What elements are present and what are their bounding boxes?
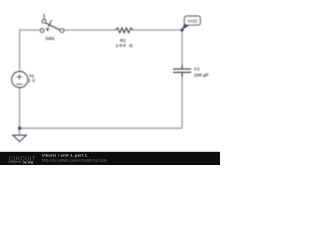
- svg-text:SW1: SW1: [45, 36, 55, 41]
- svg-text:▸LAB: ▸LAB: [23, 161, 34, 165]
- watermark logo lab line: [8, 161, 22, 163]
- svg-text:C1: C1: [194, 67, 200, 72]
- wire switch to resistor: [64, 29, 116, 31]
- node flag Vc(t) tail: [182, 23, 190, 30]
- wire right vertical below capacitor: [181, 73, 183, 128]
- switch SW1: [40, 20, 64, 33]
- node junction dot bottom-left: [18, 127, 21, 130]
- svg-text:R1: R1: [120, 38, 126, 43]
- voltage source V1: [12, 72, 28, 88]
- wire ground stub: [19, 128, 21, 135]
- wire bottom: [20, 127, 183, 129]
- svg-text:100 µF: 100 µF: [194, 72, 209, 78]
- ground: [13, 135, 26, 141]
- wire left vertical below V1: [19, 88, 21, 129]
- wire switch top stub: [43, 14, 45, 20]
- svg-text:1 V: 1 V: [28, 78, 35, 83]
- svg-text:Vc(t): Vc(t): [187, 19, 198, 24]
- svg-text:http://circuitlab.com/c/7p6dh7: http://circuitlab.com/c/7p6dh7uc7p3p: [42, 158, 107, 162]
- wire top-left segment and left vertical: [20, 30, 41, 71]
- wire resistor to top-right corner: [133, 30, 182, 69]
- capacitor C1: [173, 65, 191, 77]
- svg-text:100 Ω: 100 Ω: [116, 43, 134, 49]
- watermark bar: [0, 152, 220, 165]
- svg-text:ctkurtz / unit 1_part.1: ctkurtz / unit 1_part.1: [42, 153, 87, 157]
- node flag Vc(t) box: [184, 16, 200, 25]
- node dot top-right corner: [181, 28, 184, 31]
- resistor R1: [115, 28, 132, 33]
